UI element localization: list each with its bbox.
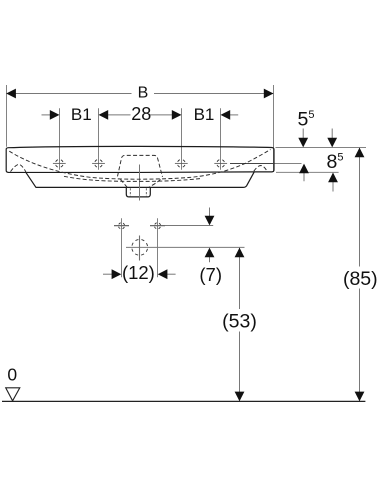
svg-text:B1: B1	[71, 105, 92, 124]
svg-text:(53): (53)	[222, 311, 257, 333]
svg-text:(12): (12)	[122, 262, 155, 283]
svg-text:(85): (85)	[343, 268, 378, 290]
svg-text:0: 0	[7, 365, 17, 385]
svg-text:B: B	[138, 85, 149, 102]
svg-text:(7): (7)	[199, 264, 222, 285]
svg-text:28: 28	[131, 104, 151, 124]
svg-text:B1: B1	[194, 105, 215, 124]
